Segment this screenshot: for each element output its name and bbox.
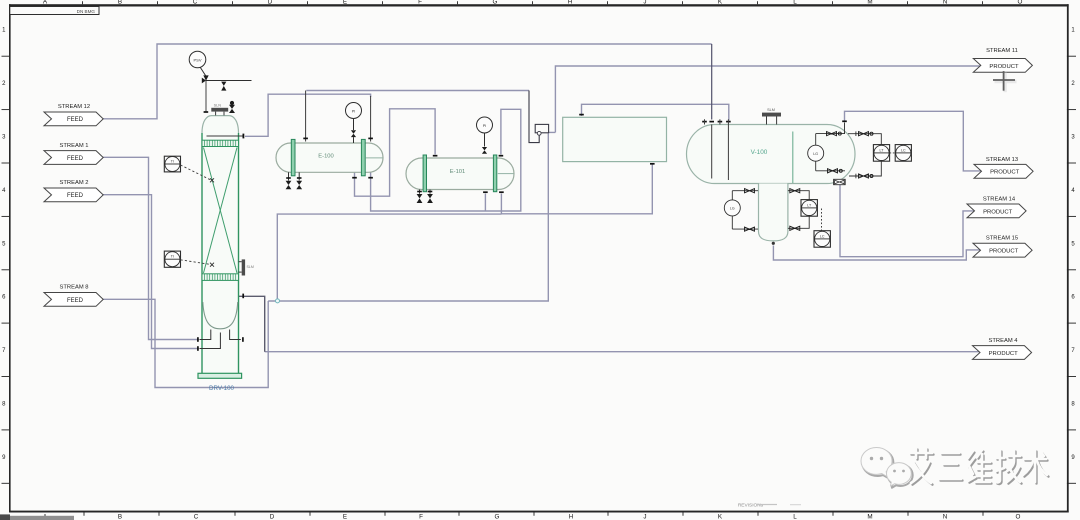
instrument square LC right (890, 145, 912, 162)
svg-text:DRV-100: DRV-100 (209, 385, 235, 392)
column overhead nozzle tick (242, 294, 244, 299)
svg-text:FEED: FEED (67, 298, 84, 304)
V-100 feed drop line (711, 44, 713, 120)
svg-text:H: H (569, 514, 574, 520)
svg-text:E-101: E-101 (450, 169, 465, 175)
grid ticks right (1067, 56, 1076, 483)
instrument square TI lower (164, 251, 214, 267)
wire STREAM 8 feed to bottoms header (103, 299, 268, 387)
svg-text:LG: LG (730, 207, 735, 211)
stream arrow STREAM 8 (44, 285, 103, 307)
svg-text:J: J (643, 514, 646, 520)
svg-text:B: B (118, 0, 122, 5)
stream arrow STREAM 14 (967, 196, 1026, 218)
boot LT valves (790, 189, 800, 231)
V-100 dip tubes (712, 123, 845, 181)
svg-text:L: L (793, 0, 797, 5)
V-100 top nozzle stubs (705, 119, 729, 124)
grid ticks left (2, 56, 10, 483)
title reference box top-left (10, 7, 99, 15)
title block text REVISIONS (738, 503, 801, 509)
wire node line to reflux box (268, 134, 548, 302)
instrument balloon PI on E-100 (346, 103, 362, 144)
svg-text:G: G (495, 514, 500, 520)
level gauge LG right (808, 134, 845, 171)
grid numbers right (1071, 28, 1075, 461)
V-100 top nozzle ticks (702, 120, 847, 122)
stream arrow STREAM 1 (44, 143, 103, 165)
bridle to LT/LC right (848, 131, 881, 178)
wire STREAM 1 feed to column nozzle A (103, 157, 199, 339)
svg-text:L: L (793, 514, 797, 520)
svg-text:M: M (867, 514, 872, 520)
wire column overhead to E-100 inlet (245, 94, 371, 136)
PSV relief line (200, 67, 251, 111)
E-100 inlet nozzle risers (306, 91, 371, 142)
svg-text:STREAM 14: STREAM 14 (983, 196, 1016, 202)
drain trap box on V-100 bottom (834, 179, 846, 184)
LG boot tap valves (745, 189, 755, 232)
column internal feed distributor (207, 134, 244, 139)
svg-text:STREAM 2: STREAM 2 (60, 180, 89, 186)
grid ticks top (83, 1, 983, 4)
svg-text:N: N (943, 0, 948, 5)
svg-text:STREAM 12: STREAM 12 (58, 104, 90, 110)
svg-text:TI: TI (171, 159, 174, 163)
svg-text:E-100: E-100 (318, 154, 333, 160)
reflux pump box (529, 91, 549, 143)
svg-text:PI: PI (483, 124, 487, 128)
stream arrow STREAM 4 (973, 338, 1032, 360)
drum V-100 shell (687, 125, 856, 184)
svg-text:TI: TI (171, 255, 174, 259)
svg-text:LC: LC (901, 148, 906, 152)
E-100 nozzle ticks (303, 138, 373, 177)
watermark text 艾三维技术 (910, 448, 1049, 485)
instrument square LT boot (801, 200, 817, 217)
E-101 nozzle ticks (433, 156, 504, 193)
svg-text:LC: LC (820, 234, 825, 238)
wire E-100 outlet to pump box (306, 90, 529, 92)
stream arrow STREAM 11 (973, 48, 1032, 73)
boot LT bridle (788, 191, 809, 229)
drum boot (759, 184, 788, 241)
wire STREAM 2 feed to column nozzle B (103, 195, 199, 349)
svg-text:LG: LG (813, 152, 818, 156)
stream arrow STREAM 2 (44, 180, 103, 202)
control valve on column dome (229, 101, 235, 113)
svg-text:FEED: FEED (67, 193, 84, 199)
wire E-101 bottom nozzle to header (484, 194, 486, 212)
svg-text:PSV: PSV (193, 57, 201, 62)
svg-text:J: J (643, 0, 646, 5)
wire bottoms to STREAM 4 (265, 351, 980, 353)
bottom-left corner bar (0, 514, 74, 520)
column dome left nozzle tick (204, 111, 209, 113)
wire E-100 tube outlet 2 to E-101 (371, 109, 521, 211)
column packing X (204, 148, 238, 274)
wire V-100 drain to STREAM 14 (840, 185, 974, 257)
svg-text:C: C (193, 0, 198, 5)
svg-text:F: F (418, 0, 422, 5)
svg-text:DN BMG: DN BMG (77, 9, 96, 14)
column packing support band lower (202, 274, 239, 281)
svg-text:M: M (867, 0, 872, 5)
svg-text:STREAM 11: STREAM 11 (986, 48, 1018, 54)
column base skirt flange (198, 373, 242, 378)
svg-text:D: D (270, 514, 275, 520)
vent valve on relief header (221, 82, 226, 91)
svg-text:REVISIONs: REVISIONs (738, 503, 764, 509)
instrument square LC boot (814, 209, 830, 248)
instrument square TI upper (164, 156, 214, 182)
svg-text:PRODUCT: PRODUCT (989, 249, 1019, 255)
svg-text:STREAM 8: STREAM 8 (60, 285, 89, 291)
column manway SLN (211, 104, 228, 116)
svg-text:STREAM 1: STREAM 1 (60, 143, 89, 149)
svg-text:FEED: FEED (67, 156, 84, 162)
stream arrow STREAM 15 (973, 236, 1032, 258)
wire E-101 outlet to heater (501, 165, 652, 214)
wire heater top to V-100 (582, 104, 729, 120)
svg-text:D: D (268, 0, 273, 5)
stream arrow STREAM 13 (974, 157, 1033, 178)
svg-text:E: E (343, 0, 347, 5)
svg-text:B: B (118, 514, 122, 520)
svg-text:SLM: SLM (767, 108, 775, 112)
svg-text:O: O (1018, 0, 1023, 5)
svg-text:G: G (493, 0, 498, 5)
svg-text:O: O (1016, 514, 1021, 520)
grid numbers left (2, 28, 6, 461)
heater box (563, 115, 667, 164)
wire boot outlet to STREAM 15 (773, 246, 980, 261)
mouse cursor crosshair (993, 71, 1017, 92)
exchanger E-101 shell (406, 155, 514, 192)
grid letters top (43, 0, 1023, 5)
wire V-100 vapor to STREAM 13 (845, 111, 982, 171)
wire STREAM 12 feed to V-100 top (103, 44, 712, 119)
level gauge LG boot (724, 191, 758, 229)
svg-text:SLN: SLN (214, 104, 222, 108)
bottoms nozzle ticks (198, 337, 243, 351)
svg-text:FEED: FEED (67, 117, 84, 123)
E-101 drain valves (417, 190, 433, 204)
grid ticks bottom (84, 511, 983, 516)
wire node riser to exchanger header (277, 214, 501, 301)
svg-text:N: N (943, 514, 948, 520)
relief valve PSV body (202, 75, 209, 83)
exchanger E-100 shell (276, 139, 383, 175)
LG right tap valves (827, 132, 843, 173)
svg-text:PRODUCT: PRODUCT (990, 170, 1020, 176)
instrument balloon PI on E-101 (477, 117, 493, 154)
svg-text:PRODUCT: PRODUCT (983, 209, 1013, 215)
wire E-100 tube outlet to E-101 top (355, 109, 436, 196)
column DRV-100 shell (202, 116, 239, 374)
node connector on mid-draw line (276, 299, 280, 303)
stream arrow STREAM 12 (44, 104, 103, 126)
column bottom head curve (203, 302, 238, 329)
svg-text:STREAM 4: STREAM 4 (989, 338, 1019, 344)
svg-text:F: F (419, 514, 423, 520)
bridle valves right (859, 132, 874, 179)
svg-text:PRODUCT: PRODUCT (989, 64, 1019, 70)
svg-text:C: C (194, 514, 199, 520)
svg-text:PI: PI (352, 109, 356, 113)
svg-text:SLM: SLM (247, 265, 254, 269)
svg-text:STREAM 15: STREAM 15 (986, 236, 1018, 242)
svg-text:V-100: V-100 (751, 149, 768, 156)
instrument balloon PSV (189, 51, 206, 68)
svg-text:PRODUCT: PRODUCT (989, 351, 1019, 357)
boot bottom nozzle tick (772, 242, 775, 245)
instrument square LT right (873, 145, 889, 162)
svg-text:H: H (568, 0, 573, 5)
column side manway (239, 259, 254, 275)
wire pump box to STREAM 11 (549, 66, 981, 132)
column packing support band upper (202, 140, 239, 146)
svg-text:STREAM 13: STREAM 13 (986, 157, 1018, 163)
wire column mid draw to stream 4 header (239, 296, 265, 351)
grid letters bottom (43, 514, 1021, 520)
E-100 drain valves (286, 172, 303, 189)
column bottoms stub A (200, 330, 241, 349)
svg-text:E: E (343, 514, 347, 520)
V-100 manway SLM (762, 108, 781, 125)
